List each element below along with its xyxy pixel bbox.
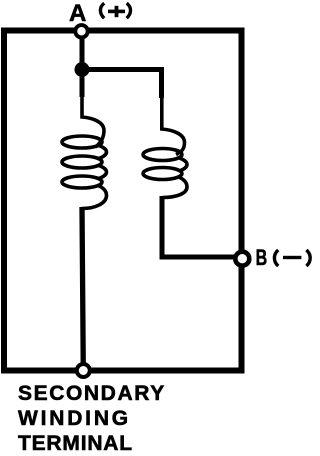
wire: junction to top of right winding	[82, 70, 162, 99]
wire: terminal A down to junction and to top of left winding	[80, 31, 85, 97]
wire: bottom of left winding to secondary terminal	[82, 207, 83, 371]
label (+) polarity: plus sign	[108, 10, 125, 14]
wire: bottom of right winding to terminal B	[162, 196, 242, 257]
svg-text:B: B	[256, 245, 268, 270]
svg-text:A: A	[69, 0, 86, 27]
wire: outer loop rectangle	[4, 31, 242, 371]
label (-) polarity: left paren	[274, 250, 278, 266]
inductor L2 (right secondary winding)	[143, 96, 187, 198]
label (+) polarity: right paren	[127, 3, 131, 18]
label (-) polarity: right paren	[306, 250, 310, 266]
svg-text:SECONDARY: SECONDARY	[18, 382, 166, 405]
secondary winding terminal (open circle)	[77, 364, 90, 377]
inductor L1 (left primary winding)	[62, 95, 107, 209]
terminal A (open circle)	[75, 25, 87, 37]
label (-) polarity: minus sign	[283, 256, 301, 259]
terminal B (open circle)	[235, 252, 249, 266]
svg-text:TERMINAL: TERMINAL	[18, 432, 133, 455]
svg-text:WINDING: WINDING	[18, 407, 131, 430]
label (+) polarity: left paren	[100, 3, 104, 18]
junction node	[75, 62, 90, 77]
